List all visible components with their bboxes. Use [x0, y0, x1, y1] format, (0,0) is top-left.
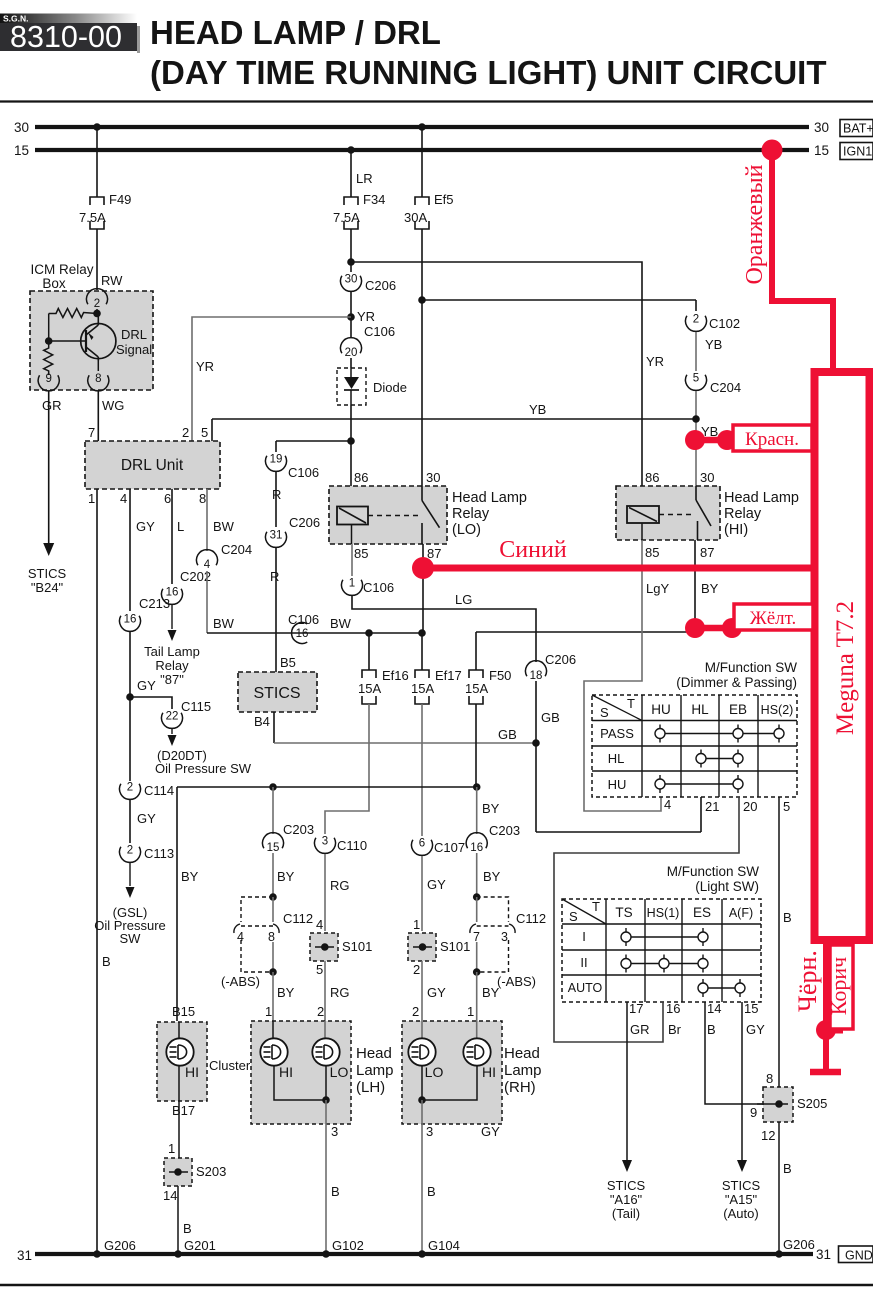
svg-text:S205: S205 [797, 1096, 827, 1111]
red label Korich box [830, 945, 853, 1029]
svg-text:DRL Unit: DRL Unit [121, 457, 184, 474]
svg-text:6: 6 [164, 491, 171, 506]
junction BW/Ef16 [365, 629, 373, 637]
wire to dimmer SW pin 21 [536, 831, 701, 833]
svg-text:12: 12 [761, 1128, 775, 1143]
svg-text:C113: C113 [144, 846, 174, 861]
fuse F49 7.5A [90, 197, 104, 205]
svg-text:8: 8 [95, 373, 101, 385]
relay HI coil [627, 506, 659, 523]
wire DRL pin5 riser to YB line [211, 419, 213, 441]
svg-text:LgY: LgY [646, 581, 669, 596]
svg-text:2: 2 [413, 962, 420, 977]
wire BW horizontal [207, 632, 422, 634]
svg-text:T: T [592, 899, 600, 914]
svg-text:B: B [331, 1184, 340, 1199]
junction GY branch to C115 [126, 693, 134, 701]
svg-text:15A: 15A [465, 681, 488, 696]
svg-text:18: 18 [530, 670, 543, 682]
svg-text:M/Function SW: M/Function SW [667, 864, 760, 879]
bus 30 BAT+ [35, 125, 809, 129]
wire bus15 to F34, LR [347, 146, 355, 154]
svg-text:"87": "87" [160, 672, 184, 687]
connector C206 pin 18 [526, 661, 547, 677]
wire F50 down to BY junction [475, 704, 477, 787]
relay HI actuator dashed [659, 514, 693, 516]
svg-text:B: B [183, 1221, 192, 1236]
svg-text:3: 3 [426, 1124, 433, 1139]
svg-text:Box: Box [42, 276, 66, 291]
svg-text:(DAY TIME RUNNING LIGHT) UNIT: (DAY TIME RUNNING LIGHT) UNIT CIRCUIT [150, 54, 826, 91]
wire DRL pin1 B to ground G206 [96, 489, 98, 1254]
wire DRL pin6 L [171, 489, 173, 584]
svg-text:(Dimmer & Passing): (Dimmer & Passing) [676, 675, 797, 690]
svg-text:B: B [783, 1161, 792, 1176]
svg-text:SW: SW [120, 931, 142, 946]
svg-text:GR: GR [630, 1022, 650, 1037]
light SW contacts row I [626, 936, 703, 938]
fuse Ef16 15A [362, 670, 376, 678]
svg-text:3: 3 [501, 930, 508, 944]
svg-text:5: 5 [201, 425, 208, 440]
svg-text:Head Lamp: Head Lamp [452, 490, 527, 506]
fuse Ef5 30A [415, 197, 429, 205]
wire Ef16 to C110 RG chain [325, 704, 369, 834]
svg-text:87: 87 [427, 546, 441, 561]
svg-text:C102: C102 [709, 316, 740, 331]
svg-text:4: 4 [316, 917, 323, 932]
svg-text:15A: 15A [411, 681, 434, 696]
svg-text:8: 8 [199, 491, 206, 506]
svg-text:86: 86 [645, 470, 659, 485]
svg-text:Lamp: Lamp [504, 1062, 542, 1079]
svg-text:S: S [569, 909, 578, 924]
svg-text:HS(2): HS(2) [761, 703, 794, 717]
svg-text:C204: C204 [221, 542, 252, 557]
svg-text:5: 5 [693, 373, 699, 385]
relay LO actuator dashed [368, 515, 420, 517]
junction BW/Ef17 [418, 629, 426, 637]
svg-text:S101: S101 [440, 939, 470, 954]
svg-text:C107: C107 [434, 840, 465, 855]
junction base node [45, 337, 53, 345]
svg-text:GND: GND [845, 1249, 873, 1263]
svg-text:7: 7 [473, 930, 480, 944]
svg-text:BY: BY [483, 869, 501, 884]
svg-text:BY: BY [277, 985, 295, 1000]
svg-text:22: 22 [166, 711, 179, 723]
svg-text:F49: F49 [109, 192, 131, 207]
svg-text:RW: RW [101, 273, 123, 288]
svg-text:EB: EB [729, 702, 747, 717]
splice S205 [763, 1087, 793, 1122]
wire BY branch via C203 pin15 to LH HI [272, 787, 274, 834]
svg-text:GR: GR [42, 398, 62, 413]
svg-text:30: 30 [14, 120, 29, 135]
wire relay LO 85 down [351, 525, 353, 545]
svg-text:15: 15 [267, 842, 280, 854]
relay HI switch [695, 486, 697, 500]
svg-text:Head: Head [356, 1045, 392, 1062]
svg-text:B17: B17 [172, 1103, 195, 1118]
svg-text:LG: LG [455, 592, 472, 607]
svg-text:HEAD LAMP / DRL: HEAD LAMP / DRL [150, 14, 441, 51]
svg-text:F50: F50 [489, 668, 511, 683]
svg-text:1: 1 [265, 1004, 272, 1019]
svg-text:14: 14 [163, 1188, 177, 1203]
connector C202 pin 16 [162, 589, 183, 605]
wire RH pin3 B to G104 [421, 1100, 423, 1254]
svg-text:G206: G206 [104, 1238, 136, 1253]
svg-text:1: 1 [349, 578, 355, 590]
svg-text:30: 30 [814, 120, 829, 135]
svg-text:PASS: PASS [600, 726, 634, 741]
svg-text:(LH): (LH) [356, 1079, 385, 1096]
Cluster box [157, 1022, 207, 1101]
svg-text:STICS: STICS [607, 1178, 646, 1193]
junction Ef5/C102 branch [418, 296, 426, 304]
junction C112 left bottom [269, 968, 277, 976]
wire YR branch to relay HI coil [351, 262, 642, 486]
svg-text:GY: GY [481, 1124, 500, 1139]
svg-text:B: B [102, 954, 111, 969]
junction F34/YR branch [347, 258, 355, 266]
resistor R-base horizontal [96, 309, 98, 313]
junction BY/C203-15 branch [269, 783, 277, 791]
svg-text:4: 4 [120, 491, 127, 506]
svg-text:86: 86 [354, 470, 368, 485]
svg-text:YR: YR [196, 359, 214, 374]
LH internal wires [274, 1065, 326, 1100]
wire DRL pin8 BW [206, 489, 208, 551]
svg-text:(HI): (HI) [724, 522, 748, 538]
svg-text:31: 31 [17, 1248, 32, 1263]
wire BY gap through C112 [476, 897, 478, 922]
connector C204 pin 4 [197, 550, 218, 566]
svg-text:C112: C112 [516, 911, 546, 926]
svg-text:C203: C203 [489, 823, 520, 838]
fuse F34 7.5A [344, 197, 358, 205]
wire left branch [48, 314, 50, 342]
connector C206 pin 30 [350, 262, 352, 272]
wire GB horizontal [274, 742, 536, 744]
svg-text:GY: GY [136, 519, 155, 534]
svg-text:HU: HU [651, 702, 671, 717]
svg-text:5: 5 [783, 799, 790, 814]
red connector box Meguna T7.2 [815, 372, 870, 940]
svg-text:RG: RG [330, 878, 350, 893]
svg-text:TS: TS [615, 905, 632, 920]
wire Ef17 to C107 [421, 704, 423, 836]
svg-text:GY: GY [137, 678, 156, 693]
wire DRL pin4 GY [129, 489, 131, 611]
connector C106 pin 20 [341, 338, 362, 354]
svg-text:F34: F34 [363, 192, 385, 207]
svg-text:HI: HI [185, 1064, 199, 1080]
svg-text:1: 1 [88, 491, 95, 506]
junction C112 right top [473, 893, 481, 901]
svg-text:C114: C114 [144, 783, 174, 798]
dimmer contacts PASS row [660, 733, 779, 735]
svg-text:4: 4 [664, 797, 671, 812]
wire BY relay HI 87 [694, 540, 696, 632]
svg-text:B: B [707, 1022, 716, 1037]
svg-text:II: II [580, 955, 587, 970]
junction collector node [93, 310, 101, 318]
svg-text:1: 1 [168, 1141, 175, 1156]
svg-text:LO: LO [425, 1064, 444, 1080]
svg-text:B5: B5 [280, 655, 296, 670]
red wire orange from bus15 [772, 150, 833, 368]
RH LO lamp [421, 1021, 423, 1039]
wire GR to STICS B24 [48, 391, 50, 543]
connector C113 pin 2 [120, 847, 141, 863]
svg-text:6: 6 [419, 838, 425, 850]
svg-text:S101: S101 [342, 939, 372, 954]
connector C203 pin 15 [263, 833, 284, 849]
svg-text:(Tail): (Tail) [612, 1206, 640, 1221]
svg-text:15: 15 [814, 143, 829, 158]
junction G201 [174, 1250, 182, 1258]
svg-text:"B24": "B24" [31, 580, 64, 595]
STICS box [238, 672, 317, 712]
wire BY to C203 pin16 [476, 787, 478, 834]
svg-text:C206: C206 [545, 652, 576, 667]
svg-text:Tail Lamp: Tail Lamp [144, 644, 200, 659]
svg-text:2: 2 [127, 845, 133, 857]
wire YR from DRL pin2 [192, 317, 351, 441]
svg-text:HS(1): HS(1) [647, 906, 680, 920]
svg-text:(-ABS): (-ABS) [497, 974, 536, 989]
svg-text:C112: C112 [283, 911, 313, 926]
svg-text:7: 7 [88, 425, 95, 440]
svg-text:G102: G102 [332, 1238, 364, 1253]
svg-text:RG: RG [330, 985, 350, 1000]
svg-text:Meguna T7.2: Meguna T7.2 [832, 601, 859, 735]
svg-text:YB: YB [705, 337, 722, 352]
svg-text:Lamp: Lamp [356, 1062, 394, 1079]
red wire Krasn to relay HI 30 [695, 437, 812, 444]
LH LO lamp [324, 1021, 326, 1039]
junction diode/R branch [347, 437, 355, 445]
connector C102 pin 2 [685, 316, 706, 332]
wire LG from relay LO 85 [352, 596, 536, 662]
svg-text:Cluster: Cluster [209, 1058, 251, 1073]
svg-text:Br: Br [668, 1022, 682, 1037]
wire light SW pin17 GR to STICS A16 [626, 1002, 628, 1160]
connector C204 pin 5 [685, 375, 706, 391]
splice S101 left [310, 933, 338, 961]
junction G206 right [775, 1250, 783, 1258]
relay LO switch [421, 486, 423, 501]
wire F49 to ICM pin2, RW [96, 229, 98, 290]
svg-text:Head: Head [504, 1045, 540, 1062]
svg-text:B: B [427, 1184, 436, 1199]
GND terminal box [839, 1246, 873, 1263]
svg-text:G206: G206 [783, 1237, 815, 1252]
wire branch to C115 [130, 697, 172, 709]
svg-text:ES: ES [693, 905, 711, 920]
svg-text:G201: G201 [184, 1238, 216, 1253]
svg-text:8: 8 [766, 1071, 773, 1086]
svg-text:HL: HL [608, 751, 625, 766]
wire cluster B17 to S203 [178, 1065, 180, 1101]
svg-text:BY: BY [482, 985, 500, 1000]
wire Ef16 drop [368, 633, 370, 670]
svg-text:2: 2 [94, 298, 100, 310]
svg-text:A(F): A(F) [729, 906, 753, 920]
light SW contacts row AUTO [703, 987, 740, 989]
svg-text:HI: HI [279, 1064, 293, 1080]
svg-text:2: 2 [412, 1004, 419, 1019]
svg-text:BAT+: BAT+ [843, 122, 873, 136]
svg-text:(LO): (LO) [452, 522, 481, 538]
red wire Siniy to relay LO 87 [423, 565, 812, 572]
svg-text:C106: C106 [363, 580, 394, 595]
svg-text:Ef17: Ef17 [435, 668, 462, 683]
svg-text:7.5A: 7.5A [79, 210, 106, 225]
svg-text:85: 85 [645, 545, 659, 560]
svg-text:C206: C206 [365, 278, 396, 293]
wire BY horizontal to cluster branch [177, 786, 477, 788]
wire branch to C102, YB chain [422, 299, 696, 301]
svg-text:(Auto): (Auto) [723, 1206, 758, 1221]
connector C106 pin 19 [266, 456, 287, 472]
svg-text:S: S [600, 705, 609, 720]
svg-text:C204: C204 [710, 380, 741, 395]
svg-text:87: 87 [700, 545, 714, 560]
svg-text:30: 30 [426, 470, 440, 485]
svg-text:BW: BW [213, 519, 235, 534]
svg-text:C106: C106 [364, 324, 395, 339]
wire F34 down to junction [350, 229, 352, 262]
svg-text:Diode: Diode [373, 380, 407, 395]
svg-text:LR: LR [356, 171, 373, 186]
svg-text:Оранжевый: Оранжевый [742, 164, 768, 284]
diode in DRL feed [337, 368, 366, 405]
svg-text:1: 1 [413, 917, 420, 932]
svg-text:16: 16 [296, 628, 309, 640]
junction YB horizontal [692, 415, 700, 423]
svg-text:2: 2 [182, 425, 189, 440]
connector C206 pin 31 [266, 532, 287, 548]
svg-text:STICS: STICS [253, 685, 300, 702]
svg-text:"A16": "A16" [610, 1192, 643, 1207]
junction G104 [418, 1250, 426, 1258]
splice S203 [164, 1158, 192, 1186]
light SW contacts row II [626, 963, 703, 965]
connector C203 pin 16 [466, 833, 487, 849]
svg-text:8: 8 [268, 930, 275, 944]
svg-text:R: R [272, 487, 281, 502]
svg-text:R: R [270, 569, 279, 584]
svg-text:LO: LO [330, 1064, 349, 1080]
svg-text:GB: GB [498, 727, 517, 742]
svg-text:15: 15 [744, 1001, 758, 1016]
wire bus30 to F49 [93, 123, 101, 131]
splice S101 right [408, 933, 436, 961]
svg-text:BY: BY [277, 869, 295, 884]
LH HI lamp [272, 1021, 274, 1039]
DRL Unit box [85, 441, 220, 489]
svg-text:3: 3 [322, 836, 328, 848]
svg-text:9: 9 [750, 1105, 757, 1120]
bus 15 IGN1 [35, 148, 809, 152]
Head Lamp Relay LO box [329, 486, 447, 544]
svg-text:30: 30 [345, 274, 358, 286]
svg-text:GY: GY [427, 985, 446, 1000]
connector C213 pin 16 [119, 616, 140, 632]
svg-text:I: I [582, 929, 586, 944]
svg-text:BY: BY [181, 869, 199, 884]
svg-text:21: 21 [705, 799, 719, 814]
ICM connector pin 9 [38, 375, 59, 391]
fuse Ef17 15A [415, 670, 429, 678]
svg-text:(-ABS): (-ABS) [221, 974, 260, 989]
wire YB horizontal [212, 418, 696, 420]
svg-text:Красн.: Красн. [745, 429, 799, 450]
svg-text:15: 15 [14, 143, 29, 158]
wire dimmer pin20 to light SW pin16 [554, 797, 739, 1042]
svg-text:AUTO: AUTO [568, 981, 603, 995]
svg-text:YR: YR [357, 309, 375, 324]
cluster HI lamp [178, 1022, 180, 1039]
svg-text:YR: YR [646, 354, 664, 369]
svg-text:Корич: Корич [826, 957, 851, 1015]
svg-text:16: 16 [666, 1001, 680, 1016]
svg-text:HU: HU [608, 777, 627, 792]
arrow to tail lamp relay 87 [171, 605, 173, 629]
dimmer contacts HU row [660, 783, 738, 785]
svg-text:C106: C106 [288, 465, 319, 480]
svg-text:5: 5 [316, 962, 323, 977]
BAT+ terminal box [840, 120, 873, 137]
dimmer contacts HL row [701, 758, 738, 760]
connector C114 pin 2 [120, 784, 141, 800]
wire diode to relay LO pin 86 [350, 405, 352, 486]
Head Lamp Relay HI box [616, 486, 720, 540]
wire bus30 to Ef5 [418, 123, 426, 131]
transistor Q DRL Signal [81, 324, 116, 359]
svg-text:31: 31 [816, 1247, 831, 1262]
wire LH pin3 B to G102 [325, 1100, 327, 1254]
svg-text:(RH): (RH) [504, 1079, 536, 1096]
arrow to GSL oil pressure switch [129, 863, 131, 886]
svg-text:Ef16: Ef16 [382, 668, 409, 683]
svg-text:GY: GY [746, 1022, 765, 1037]
svg-text:15A: 15A [358, 681, 381, 696]
svg-text:(Light SW): (Light SW) [695, 879, 759, 894]
wire Ef5 down to relay LO pin 30 [421, 229, 423, 486]
svg-text:GY: GY [137, 811, 156, 826]
wire Ef17 drop [421, 633, 423, 670]
svg-text:7.5A: 7.5A [333, 210, 360, 225]
svg-text:20: 20 [743, 799, 757, 814]
svg-text:C110: C110 [337, 838, 367, 853]
wire light SW pin14 B to S205 [705, 1002, 762, 1104]
svg-text:C106: C106 [288, 612, 319, 627]
svg-text:Синий: Синий [499, 537, 567, 563]
svg-text:M/Function SW: M/Function SW [705, 660, 798, 675]
ICM connector pin 2 [86, 289, 107, 305]
connector C106 pin 1 [342, 580, 363, 596]
IGN1 terminal box [840, 143, 873, 160]
wire BY down to cluster B15 [176, 787, 178, 1021]
junction BY distribution [473, 783, 481, 791]
svg-text:GY: GY [427, 877, 446, 892]
wire WG ICM pin8 to DRL pin7 [97, 391, 99, 441]
svg-text:1: 1 [467, 1004, 474, 1019]
